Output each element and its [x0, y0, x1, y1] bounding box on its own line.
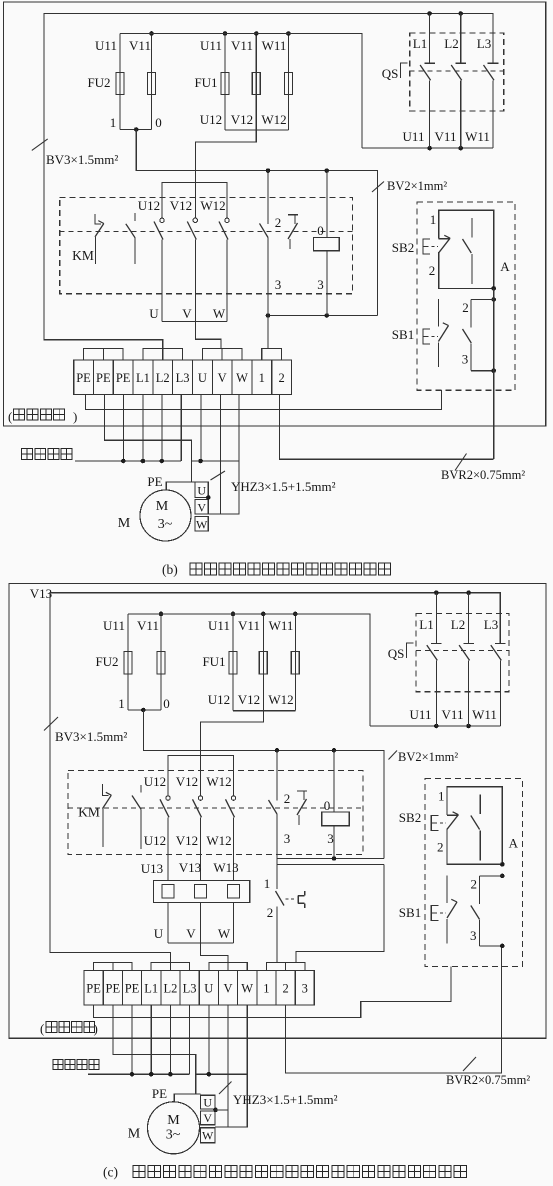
label YHZ3 cable (c)	[219, 1082, 338, 1108]
contactor KM dashed box (b)	[60, 197, 353, 293]
svg-text:(: (	[8, 409, 12, 424]
contactor KM main pole 3 (b)	[219, 218, 229, 321]
fuse FU2 (c)	[124, 614, 165, 710]
svg-text:1: 1	[110, 115, 117, 130]
fuse FU2 (b) two fuses with leads	[116, 34, 156, 130]
svg-text:PE: PE	[116, 371, 131, 385]
motor terminal box V (c)	[201, 1111, 215, 1125]
svg-text:PE: PE	[125, 982, 140, 996]
svg-text:3: 3	[275, 277, 282, 292]
svg-text:2: 2	[429, 263, 436, 278]
label FU1 (c)	[202, 654, 225, 669]
svg-text:PE: PE	[86, 982, 101, 996]
svg-text:U12: U12	[144, 833, 166, 848]
svg-text:2: 2	[284, 791, 291, 806]
wire KM main contact bottom bus U V W (b)	[162, 320, 227, 322]
svg-text:0: 0	[317, 223, 324, 238]
wire control return bus (b)	[268, 315, 378, 317]
label L3 (c)	[484, 617, 498, 632]
QS linkage dashed line (b)	[410, 70, 504, 72]
svg-text:A: A	[500, 259, 510, 274]
wire control feed FU2 to control bus (b)	[136, 130, 377, 316]
label V11 above FU2 (b)	[129, 38, 151, 53]
svg-text:W12: W12	[200, 198, 225, 213]
svg-text:L1: L1	[136, 371, 150, 385]
svg-text:U11: U11	[200, 38, 222, 53]
label W11 above FU1 (b)	[262, 38, 287, 53]
label U11 above FU1 (b)	[200, 38, 222, 53]
panel outline (c) wiring board border	[9, 584, 546, 1039]
motor terminal box W (b)	[195, 516, 208, 531]
pushbutton SB1 start contact block (b)	[438, 299, 493, 371]
label BV2x1mm2 (b)	[372, 179, 447, 193]
svg-text:L3: L3	[183, 982, 197, 996]
label V11 below QS (c)	[442, 707, 464, 722]
wire FR heater output 3 (c)	[233, 903, 235, 943]
label W12 at KM (b)	[200, 198, 225, 213]
wire FU1 output bus (c)	[233, 710, 295, 712]
motor M circle (c)	[148, 1102, 200, 1154]
svg-text:0: 0	[163, 696, 170, 711]
svg-text:U11: U11	[95, 38, 117, 53]
pushbutton SB1 actuator (c)	[431, 906, 446, 921]
pushbutton SB2 actuator (c)	[431, 816, 446, 831]
svg-text:W12: W12	[206, 833, 231, 848]
label W12 below KM contacts (c)	[206, 833, 231, 848]
node coil return tap (c)	[332, 856, 337, 861]
svg-text:W: W	[236, 371, 248, 385]
wire FR bottom bus (c)	[168, 942, 234, 944]
wire PE3 terminal drop (c)	[131, 1005, 133, 1074]
wire PE1 terminal to SB box earth run (b)	[85, 390, 441, 409]
svg-text:W12: W12	[261, 112, 286, 127]
label U12 at KM (b)	[138, 198, 160, 213]
svg-text:3: 3	[470, 928, 477, 943]
svg-text:3: 3	[317, 277, 324, 292]
wire KM coil return line (c)	[277, 858, 384, 860]
wire SB station right lead down (b)	[493, 288, 495, 459]
svg-text:2: 2	[275, 215, 282, 230]
contactor KM main pole 2 (c)	[193, 796, 203, 881]
coil KM (c)	[322, 750, 350, 858]
label U11 below QS (b)	[403, 129, 425, 144]
svg-text:V11: V11	[137, 618, 159, 633]
svg-text:L1: L1	[419, 617, 433, 632]
label 3 below self-latch contact (b)	[275, 277, 282, 292]
svg-text:U: U	[154, 926, 164, 941]
label 2 at self-latch (c)	[284, 791, 291, 806]
svg-text:V12: V12	[176, 833, 198, 848]
wire KM main contact top bus (c)	[168, 756, 234, 796]
svg-text:PE: PE	[106, 982, 121, 996]
svg-text:U11: U11	[208, 618, 230, 633]
contactor KM self-latch NO contact (c)	[269, 750, 278, 858]
label SB2 (b)	[392, 240, 414, 255]
node motor terminal junction (c)	[213, 1108, 228, 1113]
terminal strip XT (b)	[74, 360, 292, 395]
svg-text:(: (	[40, 1021, 44, 1036]
wire motor cable bundle line (c)	[196, 1073, 248, 1075]
svg-text:KM: KM	[78, 805, 100, 820]
wire L2 terminal drop (c)	[169, 1005, 171, 1074]
svg-text:W: W	[213, 306, 226, 321]
label 1 at FR contact (c)	[264, 876, 271, 891]
wire UVW bundle FR to V stub (c)	[201, 943, 229, 963]
contactor KM aux NC contact right (c)	[297, 791, 307, 825]
svg-text:U12: U12	[200, 112, 222, 127]
terminal strip labels (c)	[86, 982, 308, 996]
svg-text:V12: V12	[238, 692, 260, 707]
svg-text:PE: PE	[152, 1086, 167, 1101]
coil KM (b)	[314, 171, 340, 316]
svg-text:W13: W13	[213, 860, 238, 875]
label W12 below FU1 (c)	[268, 692, 293, 707]
svg-text:FU1: FU1	[194, 75, 217, 90]
svg-text:V13: V13	[30, 586, 52, 601]
svg-text:M: M	[156, 499, 169, 514]
svg-text:2: 2	[437, 840, 444, 855]
motor terminal box U (b)	[195, 482, 208, 498]
contactor KM self-latch NO contact (b)	[260, 171, 269, 316]
svg-text:V11: V11	[442, 707, 464, 722]
caption (b)	[162, 562, 390, 577]
label U11 above FU1 (c)	[208, 618, 230, 633]
label KM (c)	[78, 805, 100, 820]
label 3~ inside motor (c)	[166, 1128, 181, 1143]
switch QS pole L3 (b)	[484, 63, 499, 148]
label PE at motor (c)	[152, 1086, 167, 1101]
fuse FU1 (c)	[229, 614, 299, 711]
svg-text:W: W	[196, 518, 208, 532]
switch QS pole L2 (c)	[459, 593, 474, 726]
label W13 (c)	[213, 860, 238, 875]
label W11 below QS (c)	[472, 707, 497, 722]
svg-text:FU1: FU1	[202, 654, 225, 669]
label M outside motor (b)	[118, 516, 131, 531]
label FU1 (b)	[194, 75, 217, 90]
wire L2 terminal drop (b)	[161, 395, 163, 462]
svg-text:2: 2	[278, 371, 284, 385]
motor terminal box V (b)	[195, 500, 208, 515]
wire PE1 terminal to SB box earth run (c)	[94, 967, 451, 1018]
label 2 at SB2 (c)	[437, 840, 444, 855]
QS handle bracket (c)	[407, 643, 414, 658]
motor terminal box W (c)	[201, 1128, 215, 1143]
svg-text:W: W	[202, 1129, 214, 1143]
QS handle bracket (b)	[401, 63, 408, 78]
label L2 (b)	[444, 36, 458, 51]
svg-text:U: U	[197, 484, 206, 498]
terminal strip XT (c)	[84, 971, 314, 1006]
svg-text:U: U	[198, 371, 207, 385]
label V12 below KM contacts (c)	[176, 833, 198, 848]
label V12 below FU1 (c)	[238, 692, 260, 707]
svg-text:(c): (c)	[103, 1165, 118, 1180]
node motor terminal junction (b)	[206, 495, 211, 500]
label U11 below QS (c)	[410, 707, 432, 722]
contactor KM aux NO contact 2 (b)	[126, 213, 135, 264]
motor terminal box U (c)	[201, 1095, 215, 1109]
svg-text:A: A	[509, 836, 519, 851]
switch QS pole L1 (b)	[420, 14, 435, 149]
svg-text:FU2: FU2	[87, 75, 110, 90]
label BV3x1.5mm2 (b)	[32, 139, 119, 167]
label V11 below QS (b)	[435, 129, 457, 144]
node fuse feed bus dots (c)	[159, 612, 298, 617]
label 3 at SB1 (c)	[470, 928, 477, 943]
label 1 (b)	[110, 115, 117, 130]
label 2 at self-latch contact (b)	[275, 215, 282, 230]
wire FU1 V12 feed to KM main contacts (b)	[195, 130, 256, 218]
node motor cable U tap (c)	[207, 1072, 212, 1077]
label V11 above FU2 (c)	[137, 618, 159, 633]
svg-text:L3: L3	[477, 36, 491, 51]
node QS lower bus junctions (b)	[427, 146, 463, 151]
svg-text:V11: V11	[129, 38, 151, 53]
wire U terminal drop (b)	[200, 395, 202, 462]
svg-text:U12: U12	[138, 198, 160, 213]
label V below FR (c)	[186, 926, 196, 941]
contactor KM dashed box (c)	[68, 771, 363, 855]
svg-text:W11: W11	[465, 129, 490, 144]
svg-text:L3: L3	[176, 371, 190, 385]
svg-text:U12: U12	[144, 774, 166, 789]
label 3~ inside motor (b)	[158, 517, 173, 532]
wire FU2 output bus (c)	[128, 709, 161, 711]
svg-text:V11: V11	[238, 618, 260, 633]
wire FU1 output bus (b)	[225, 129, 288, 131]
wire FR contact feed line (c)	[277, 859, 384, 865]
label SB2 (c)	[399, 810, 421, 825]
label YHZ3 cable (b)	[211, 471, 336, 494]
wire L1 terminal drop (b)	[142, 395, 144, 462]
svg-text:W: W	[218, 926, 231, 941]
svg-text:1: 1	[264, 876, 271, 891]
label M outside motor (c)	[128, 1127, 141, 1142]
label BVR2 cable (b)	[441, 454, 525, 483]
caption (c)	[103, 1165, 466, 1180]
label 1 at SB2 (b)	[430, 212, 437, 227]
svg-text:W11: W11	[269, 618, 294, 633]
wire QS lower bus U11 V11 W11 (b)	[362, 147, 493, 149]
svg-text:3: 3	[327, 831, 334, 846]
svg-text:PE: PE	[76, 371, 91, 385]
label V11 above FU1 (c)	[238, 618, 260, 633]
node SB2 output junctions (c)	[500, 862, 505, 878]
thermal relay FR NC contact (c)	[276, 865, 305, 963]
label 0 above coil (b)	[317, 223, 324, 238]
svg-text:L1: L1	[144, 982, 158, 996]
label san-xiang-jin-xian three phase incoming (b)	[22, 449, 72, 460]
svg-text:3~: 3~	[166, 1128, 181, 1143]
node QS lower bus junctions (c)	[434, 724, 471, 729]
wire motor PE connection (c)	[174, 1094, 200, 1102]
wire QS lower bus (c)	[370, 725, 501, 727]
svg-text:SB1: SB1	[392, 327, 414, 342]
label QS (c)	[388, 646, 405, 661]
svg-text:V: V	[203, 1111, 212, 1125]
label 0 (c)	[163, 696, 170, 711]
wire motor PE connection (b)	[166, 482, 195, 490]
label 2 at SB1 (c)	[471, 877, 478, 892]
wire FR heater output 1 (c)	[167, 903, 169, 943]
pushbutton SB2 stop contact block (b)	[439, 210, 494, 288]
node QS top bus taps (b)	[427, 11, 463, 16]
node SB1 output junction (b)	[491, 368, 496, 373]
wire W terminal drop to motor cable (b)	[208, 395, 239, 514]
svg-text:1: 1	[263, 982, 269, 996]
svg-text:PE: PE	[147, 474, 162, 489]
label U11 above FU2 (b)	[95, 38, 117, 53]
svg-text:V11: V11	[231, 38, 253, 53]
label 3 below coil (b)	[317, 277, 324, 292]
label U13 (c)	[141, 861, 163, 876]
contactor KM aux NC contact 1 (c)	[103, 784, 112, 847]
label U12 below KM contacts (c)	[144, 833, 166, 848]
wire PE2 terminal to motor PE run (c)	[113, 1005, 201, 1094]
svg-text:SB2: SB2	[392, 240, 414, 255]
svg-text:V13: V13	[179, 860, 201, 875]
svg-text:1: 1	[438, 789, 445, 804]
label 1 at SB2 (c)	[438, 789, 445, 804]
wire U terminal drop (c)	[208, 1005, 210, 1074]
svg-text:V12: V12	[176, 774, 198, 789]
svg-text:PE: PE	[96, 371, 111, 385]
label W11 above FU1 (c)	[269, 618, 294, 633]
node SB2 output junctions (b)	[491, 286, 496, 302]
wire V terminal drop to motor (b)	[220, 395, 222, 514]
switch QS enclosure dashed box (b)	[410, 33, 504, 111]
svg-text:): )	[73, 409, 77, 424]
label V at KM bottom (b)	[182, 306, 192, 321]
panel outline (b) wiring board border	[4, 2, 546, 426]
thermal relay FR heater elements (c)	[153, 881, 249, 903]
svg-text:U13: U13	[141, 861, 163, 876]
svg-text:BV3×1.5mm²: BV3×1.5mm²	[46, 152, 118, 167]
svg-text:2: 2	[471, 877, 478, 892]
wire terminal 2 to SB box (b)	[280, 395, 494, 460]
contactor KM aux NC contact right (b)	[288, 215, 298, 249]
label BV3x1.5mm2 (c)	[44, 717, 127, 744]
svg-text:U11: U11	[410, 707, 432, 722]
wire incoming three-phase line (b)	[75, 460, 181, 462]
switch QS enclosure dashed box (c)	[416, 613, 509, 691]
label U12 below FU1 (b)	[200, 112, 222, 127]
terminal strip top jumper stubs (c)	[94, 963, 305, 971]
label 3 below self-latch (c)	[284, 831, 291, 846]
svg-text:W: W	[241, 982, 253, 996]
node QS top bus taps (c)	[434, 590, 471, 595]
fuse FU1 (b) three fuses with leads	[221, 34, 292, 131]
label 3 below coil (c)	[327, 831, 334, 846]
wire L3 terminal drop (b)	[180, 395, 182, 462]
svg-text:U: U	[203, 1096, 212, 1110]
KM linkage dashed line (c)	[68, 807, 363, 809]
svg-text:L2: L2	[451, 617, 465, 632]
label FU2 (c)	[95, 654, 118, 669]
svg-text:3~: 3~	[158, 517, 173, 532]
wire terminal 2 to SB box (c)	[286, 946, 502, 1073]
pushbutton SB1 start contact block (c)	[447, 875, 502, 946]
label L1 (c)	[419, 617, 433, 632]
svg-text:YHZ3×1.5+1.5mm²: YHZ3×1.5+1.5mm²	[233, 1092, 338, 1107]
wire FR loop to terminal 3 stub (c)	[296, 865, 384, 963]
node control return taps (b)	[266, 313, 329, 318]
wire QS output feed to fuse bus (b)	[120, 34, 362, 149]
terminal strip labels (b)	[76, 371, 285, 385]
label L1 (b)	[413, 36, 427, 51]
label W11 below QS (b)	[465, 129, 490, 144]
svg-text:SB2: SB2	[399, 810, 421, 825]
contactor KM aux NO contact 2 (c)	[132, 785, 141, 849]
svg-text:M: M	[128, 1127, 141, 1142]
node incoming line taps PE3 L1 L2 (b)	[121, 459, 164, 464]
svg-text:QS: QS	[388, 646, 405, 661]
svg-text:0: 0	[155, 115, 162, 130]
svg-text:U11: U11	[403, 129, 425, 144]
svg-text:BV2×1mm²: BV2×1mm²	[398, 750, 458, 764]
svg-text:U: U	[204, 982, 213, 996]
pushbutton SB2 actuator (b)	[423, 239, 438, 254]
switch QS pole L2 (b)	[451, 14, 466, 149]
label V13 (c)	[30, 586, 52, 601]
pushbutton SB2 stop contact block (c)	[447, 787, 502, 865]
contactor KM main pole 1 (b)	[154, 218, 164, 321]
svg-text:L1: L1	[413, 36, 427, 51]
node FU2 output junction (b)	[134, 127, 139, 132]
svg-text:BV3×1.5mm²: BV3×1.5mm²	[55, 729, 127, 744]
label PE at motor (b)	[147, 474, 162, 489]
label W below FR (c)	[218, 926, 231, 941]
label V12 at KM (b)	[170, 198, 192, 213]
switch QS pole L3 (c)	[491, 643, 506, 726]
wire BV3 bundle from L1-L3 terminals up and across top to QS (b)	[44, 14, 493, 349]
wire SB station left lead down (b)	[440, 390, 442, 409]
node control bus taps (c)	[275, 748, 337, 753]
QS linkage dashed line (c)	[416, 650, 509, 652]
label huang-lv-shuang-se yellow-green (b)	[8, 409, 77, 424]
svg-text:W11: W11	[262, 38, 287, 53]
svg-text:V: V	[197, 501, 206, 515]
svg-text:V: V	[223, 982, 232, 996]
svg-text:2: 2	[267, 905, 274, 920]
wire control bus to terminal 1-2 stub (b)	[267, 316, 269, 349]
svg-text:V: V	[186, 926, 196, 941]
wire UVW bundle from KM to terminal V stub (b)	[195, 321, 221, 348]
label U11 above FU2 (c)	[103, 618, 125, 633]
svg-text:BV2×1mm²: BV2×1mm²	[387, 179, 447, 193]
label SB1 (b)	[392, 327, 414, 342]
svg-text:L2: L2	[163, 982, 177, 996]
label 1 (c)	[118, 696, 125, 711]
contactor KM main pole 1 (c)	[160, 796, 170, 881]
svg-text:3: 3	[302, 982, 308, 996]
svg-text:): )	[94, 1021, 98, 1036]
label QS (b)	[382, 66, 399, 81]
label V13 at FR (c)	[179, 860, 201, 875]
svg-text:V12: V12	[231, 112, 253, 127]
wire QS output feed to fuse bus (c)	[128, 614, 370, 726]
wire incoming three-phase line (c)	[88, 1073, 190, 1075]
node motor cable U tap (b)	[198, 459, 203, 464]
node FU2 output junction (c)	[141, 708, 146, 713]
label V12 at KM (c)	[176, 774, 198, 789]
svg-text:L2: L2	[444, 36, 458, 51]
label A junction (c)	[509, 836, 519, 851]
wire PE3 terminal drop (b)	[122, 395, 124, 462]
wire L1 terminal drop (c)	[150, 1005, 152, 1074]
label U12 below FU1 (c)	[208, 692, 230, 707]
